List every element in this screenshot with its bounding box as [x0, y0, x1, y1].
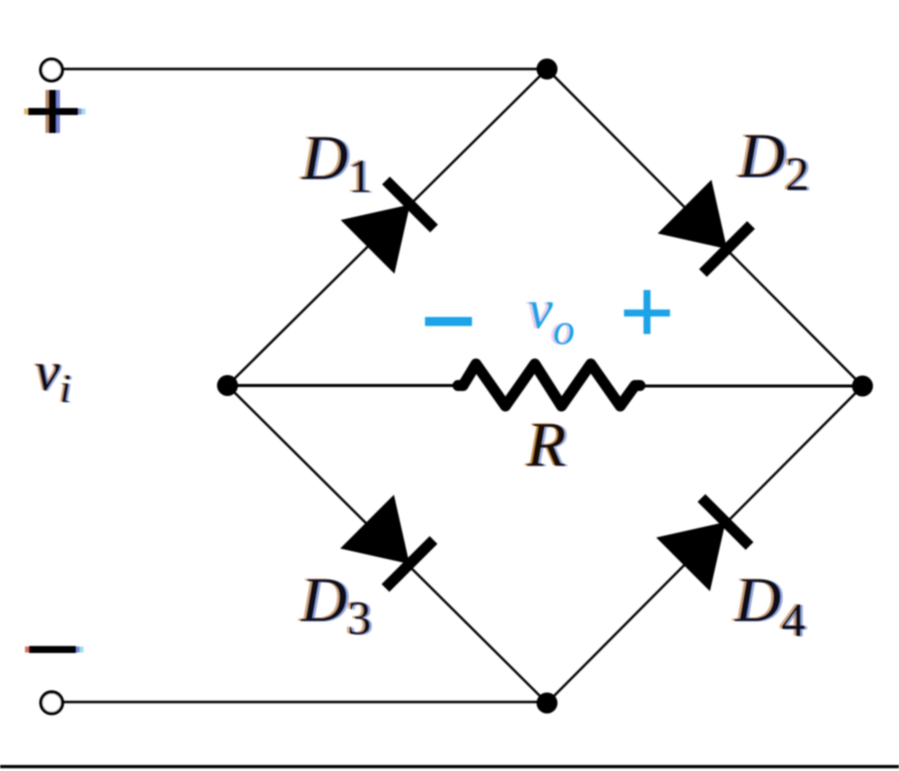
bottom border rule — [0, 765, 899, 768]
plus sign: input polarity (black) — [24, 90, 86, 133]
svg-text:D3: D3 — [300, 564, 371, 645]
svg-text:D2: D2 — [738, 120, 809, 201]
label D2 — [736, 120, 812, 202]
wire: bridge lower-left branch — [228, 386, 548, 704]
diode D1 (upper-left branch, pointing to top node) — [341, 174, 441, 274]
terminal: + input circle — [41, 59, 63, 81]
label v_o (cyan) — [525, 279, 575, 354]
wire: middle left segment (left node to resistor) — [228, 384, 463, 387]
diode D2 (upper-right branch, pointing to right node) — [658, 180, 758, 280]
label D4 — [732, 564, 808, 648]
resistor R (zigzag) — [458, 364, 640, 406]
wire: bottom input lead from − terminal to bottom node — [64, 701, 547, 703]
node: right junction — [852, 376, 873, 397]
node: top junction — [537, 59, 558, 80]
minus sign: output polarity (cyan) — [425, 317, 472, 326]
label D1 — [299, 122, 375, 204]
svg-text:D1: D1 — [301, 122, 372, 203]
wire: bridge upper-left branch — [228, 69, 548, 386]
diode D3 (lower-left branch, pointing to bottom node) — [340, 495, 440, 595]
wire: bridge lower-right branch — [547, 386, 863, 703]
label v_i — [33, 341, 73, 412]
wire: middle right segment (resistor to right node) — [636, 385, 863, 388]
plus sign: output polarity (cyan) — [624, 290, 670, 334]
diode D4 (lower-right branch, pointing to right node) — [656, 491, 756, 591]
wire: bridge upper-right branch — [547, 69, 863, 386]
label D3 — [298, 564, 374, 646]
node: left junction — [217, 375, 238, 396]
svg-text:vi: vi — [35, 341, 71, 411]
wire: top input lead from + terminal to top node — [63, 68, 547, 70]
node: bottom junction — [537, 693, 558, 714]
label R — [524, 409, 569, 481]
svg-text:R: R — [526, 409, 566, 480]
minus sign: input polarity (black) — [25, 646, 84, 653]
svg-text:D4: D4 — [734, 564, 805, 647]
terminal: − input circle — [41, 692, 63, 714]
